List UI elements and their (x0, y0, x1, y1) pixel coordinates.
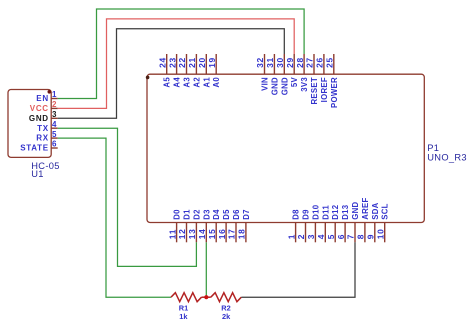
svg-text:D0: D0 (173, 209, 182, 220)
resistor R2 (2k) (206, 293, 241, 302)
svg-text:RESET: RESET (310, 77, 319, 105)
P1 pin 4 (D11) stub (316, 205, 330, 243)
svg-text:18: 18 (237, 228, 247, 239)
R1 label (179, 303, 188, 312)
svg-text:D7: D7 (242, 209, 251, 220)
U1 designator U1 (31, 169, 43, 179)
P1 pin 5 (D12) stub (326, 204, 340, 242)
svg-text:A2: A2 (192, 77, 201, 88)
svg-text:GND: GND (270, 77, 279, 95)
svg-text:STATE: STATE (20, 144, 49, 153)
svg-text:13: 13 (187, 228, 197, 239)
R2 value 2k (222, 312, 231, 321)
svg-text:A4: A4 (173, 77, 182, 88)
P1 pin 11 (D0) stub (167, 209, 181, 242)
svg-text:23: 23 (167, 57, 177, 68)
P1 pin 21 (A2) stub (187, 54, 201, 88)
svg-text:D9: D9 (302, 209, 311, 220)
svg-text:7: 7 (346, 234, 356, 239)
svg-text:D8: D8 (292, 209, 301, 220)
U1 pin 5 (RX) stub (36, 130, 57, 143)
svg-text:4: 4 (316, 234, 326, 239)
svg-text:14: 14 (197, 228, 207, 239)
P1 pin 6 (D13) stub (336, 204, 350, 242)
svg-text:31: 31 (265, 57, 275, 68)
P1 pin 29 (5V) stub (285, 54, 299, 87)
svg-text:TX: TX (37, 124, 49, 133)
P1 pin 20 (A1) stub (197, 54, 211, 88)
resistor R1 (1k) (171, 293, 206, 302)
P1 pin 27 (RESET) stub (305, 54, 319, 105)
wire U1 VCC (pin2) to P1 5V (pin29), red (58, 19, 295, 109)
svg-text:P1: P1 (427, 143, 439, 153)
svg-text:29: 29 (285, 57, 295, 68)
svg-text:EN: EN (36, 94, 49, 103)
svg-text:26: 26 (315, 57, 325, 68)
svg-text:5: 5 (52, 130, 57, 139)
wire P1 D3 (pin14) down to R1/R2 junction, green (205, 242, 207, 297)
svg-text:21: 21 (187, 57, 197, 68)
P1 pin 2 (D9) stub (296, 209, 310, 242)
P1 pin 17 (D6) stub (227, 209, 241, 242)
U1 pin 6 (STATE) stub (20, 140, 57, 153)
R1 value 1k (179, 312, 188, 321)
svg-text:D2: D2 (192, 209, 201, 220)
svg-text:RX: RX (36, 134, 49, 143)
svg-text:8: 8 (356, 234, 366, 239)
P1 designator P1 (427, 143, 439, 153)
P1 pin 14 (D3) stub (197, 209, 211, 242)
svg-text:VCC: VCC (30, 104, 49, 113)
svg-text:19: 19 (207, 57, 217, 68)
P1 pin 22 (A3) stub (177, 54, 191, 88)
svg-text:32: 32 (255, 57, 265, 68)
svg-text:12: 12 (177, 228, 187, 239)
svg-text:3: 3 (52, 110, 57, 119)
svg-text:6: 6 (52, 140, 57, 149)
P1 pin 15 (D4) stub (207, 209, 221, 242)
svg-text:11: 11 (167, 229, 177, 239)
svg-text:1: 1 (286, 234, 296, 239)
P1 pin 24 (A5) stub (157, 54, 171, 88)
svg-text:D3: D3 (202, 209, 211, 220)
svg-text:A5: A5 (163, 77, 172, 88)
svg-text:AREF: AREF (361, 197, 370, 219)
wire U1 EN (pin1) to P1 3V3 (pin28), green (58, 9, 304, 99)
U1 pin 2 (VCC) stub (30, 100, 58, 113)
svg-text:3V3: 3V3 (300, 77, 309, 92)
svg-text:2k: 2k (222, 312, 231, 321)
P1 pin 12 (D1) stub (177, 209, 191, 242)
svg-text:2: 2 (52, 100, 57, 109)
wire U1 TX (pin4) to P1 D2 (pin13), green (58, 128, 197, 266)
P1 pin 3 (D10) stub (306, 204, 320, 242)
P1 pin 19 (A0) stub (207, 54, 221, 88)
svg-text:D6: D6 (232, 209, 241, 220)
R2 label (221, 303, 230, 312)
P1 pin-1 marker dot (146, 76, 150, 80)
svg-text:SCL: SCL (381, 203, 390, 220)
P1 pin 23 (A4) stub (167, 54, 181, 88)
P1 pin 25 (POWER) stub (325, 54, 339, 108)
P1 pin 18 (D7) stub (237, 209, 251, 242)
svg-text:POWER: POWER (330, 77, 339, 108)
svg-text:VIN: VIN (261, 77, 270, 91)
svg-text:A3: A3 (183, 77, 192, 88)
svg-text:4: 4 (52, 120, 57, 129)
svg-text:6: 6 (336, 234, 346, 239)
svg-text:5: 5 (326, 234, 336, 239)
svg-text:15: 15 (207, 228, 217, 239)
svg-text:A1: A1 (202, 77, 211, 88)
svg-text:5V: 5V (290, 77, 299, 88)
svg-text:25: 25 (325, 57, 335, 68)
svg-text:IOREF: IOREF (320, 77, 329, 102)
svg-text:D11: D11 (321, 205, 330, 220)
svg-text:30: 30 (275, 57, 285, 68)
Arduino UNO_R3 P1 body (147, 74, 424, 222)
svg-text:GND: GND (351, 202, 360, 220)
P1 pin 26 (IOREF) stub (315, 54, 329, 102)
svg-text:16: 16 (217, 228, 227, 239)
U1 pin-1 marker dot (48, 90, 52, 94)
P1 pin 16 (D5) stub (217, 209, 231, 242)
svg-text:GND: GND (29, 114, 49, 123)
P1 pin 10 (SCL) stub (375, 203, 389, 242)
svg-text:1k: 1k (179, 312, 188, 321)
P1 reference label UNO_R3 (427, 153, 467, 163)
svg-text:SDA: SDA (371, 202, 380, 219)
svg-text:U1: U1 (31, 169, 43, 179)
wire U1 GND (pin3) to P1 GND (pin30), dark (58, 29, 285, 119)
svg-text:27: 27 (305, 57, 315, 68)
P1 pin 31 (GND) stub (265, 54, 279, 95)
svg-text:1: 1 (52, 90, 57, 99)
svg-text:GND: GND (280, 77, 289, 95)
P1 pin 30 (GND) stub (275, 54, 289, 95)
svg-text:24: 24 (157, 57, 167, 68)
U1 reference label HC-05 (31, 161, 59, 171)
U1 pin 1 (EN) stub (36, 90, 57, 103)
svg-text:D13: D13 (341, 204, 350, 220)
P1 pin 32 (VIN) stub (255, 54, 269, 91)
wire R2 right terminal to P1 GND (pin7), dark (241, 242, 355, 297)
P1 pin 1 (D8) stub (286, 209, 300, 242)
svg-text:D1: D1 (183, 209, 192, 220)
svg-text:D5: D5 (222, 209, 231, 220)
P1 pin 13 (D2) stub (187, 209, 201, 242)
svg-text:17: 17 (227, 228, 237, 239)
svg-text:9: 9 (366, 234, 376, 239)
svg-text:28: 28 (295, 57, 305, 68)
P1 pin 28 (3V3) stub (295, 54, 309, 92)
wire U1 RX (pin5) to resistor R1 left terminal, green (58, 138, 171, 297)
P1 pin 7 (GND) stub (346, 202, 360, 243)
svg-text:A0: A0 (212, 77, 221, 88)
svg-text:D10: D10 (311, 204, 320, 220)
svg-text:20: 20 (197, 57, 207, 68)
svg-text:D12: D12 (331, 204, 340, 220)
svg-text:D4: D4 (212, 209, 221, 220)
svg-text:2: 2 (296, 234, 306, 239)
svg-text:22: 22 (177, 57, 187, 68)
HC-05 module U1 body (8, 90, 51, 158)
junction dot R1/R2/D3 node (204, 295, 208, 299)
U1 pin 3 (GND) stub (29, 110, 58, 123)
svg-text:UNO_R3: UNO_R3 (427, 153, 467, 163)
svg-text:3: 3 (306, 234, 316, 239)
P1 pin 8 (AREF) stub (356, 197, 370, 242)
P1 pin 9 (SDA) stub (366, 202, 380, 242)
U1 pin 4 (TX) stub (37, 120, 58, 133)
svg-text:10: 10 (375, 228, 385, 239)
